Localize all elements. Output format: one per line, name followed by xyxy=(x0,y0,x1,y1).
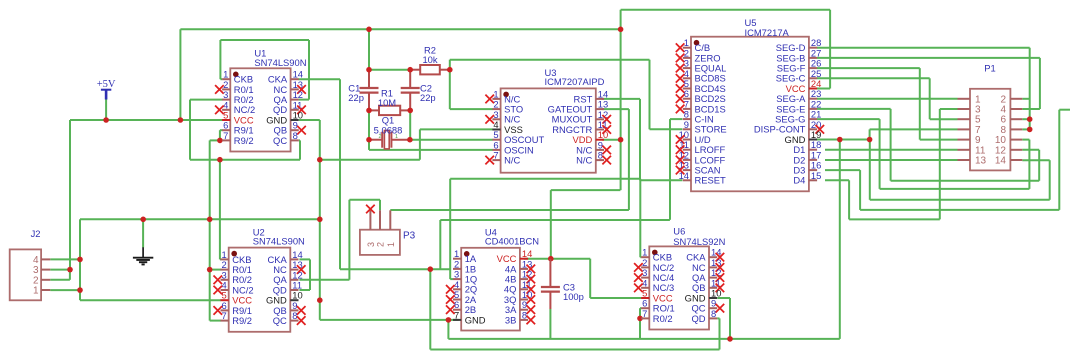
svg-text:8: 8 xyxy=(522,309,527,320)
junction U4 1B tap xyxy=(428,266,434,272)
wire P3 pin2 riser xyxy=(349,200,380,280)
svg-text:2: 2 xyxy=(376,242,386,247)
wire C3 bottom to U4 GND xyxy=(549,309,551,339)
svg-text:P3: P3 xyxy=(403,231,416,242)
svg-text:22p: 22p xyxy=(420,92,436,103)
wire R2 left node to C1 node xyxy=(369,69,410,71)
wire GND spine to U3 VSS xyxy=(320,129,493,159)
svg-text:22p: 22p xyxy=(348,92,364,103)
wire U6 GND riser xyxy=(718,298,731,339)
svg-text:SN74LS92N: SN74LS92N xyxy=(673,236,725,247)
junction R2 right terminal xyxy=(447,67,453,73)
svg-text:8: 8 xyxy=(293,130,298,141)
wire U1 pin3 R0/2 to QC line xyxy=(190,100,223,160)
wire SEG-D to P1 pin2 xyxy=(817,48,1030,130)
junction U6 reset pins xyxy=(637,316,643,322)
svg-text:R9/2: R9/2 xyxy=(234,135,254,146)
wire C2 bottom node to crystal xyxy=(409,110,411,140)
svg-text:ICM7207AIPD: ICM7207AIPD xyxy=(545,76,605,87)
svg-text:7: 7 xyxy=(454,309,459,320)
junction GND bus at spine xyxy=(317,217,323,223)
wire +5V horizontal to U4 VCC xyxy=(524,190,551,259)
junction R1 left node xyxy=(366,108,372,114)
wire U1 QA loop to CKB xyxy=(220,40,309,100)
svg-text:14: 14 xyxy=(995,156,1007,167)
crystal Q1 5.0688 xyxy=(369,115,410,149)
wire U1 GND down spine xyxy=(299,120,320,320)
wire U6 RO/1 bend xyxy=(640,308,641,318)
IC U6 SN74LS92N xyxy=(649,246,709,329)
junction GND bus at R9 riser xyxy=(207,217,213,223)
wire U1 CKA to U4 1B xyxy=(299,79,450,269)
wire +5V west branch xyxy=(551,189,621,191)
junction R2 left terminal xyxy=(407,67,413,73)
svg-text:1: 1 xyxy=(395,134,398,140)
wire U2 R0/1 tap xyxy=(210,269,221,271)
junction C1/R2 node xyxy=(366,67,372,73)
junction +5V symbol on bus xyxy=(103,117,109,123)
svg-text:P1: P1 xyxy=(984,63,995,74)
svg-text:2: 2 xyxy=(379,134,382,140)
wire J2 pin1 xyxy=(50,289,80,291)
svg-text:D4: D4 xyxy=(793,175,805,186)
junction +5V W1 at C1 riser xyxy=(366,27,372,33)
ground symbol xyxy=(133,247,153,264)
svg-text:QC: QC xyxy=(273,315,287,326)
wire +5V from dot to U6 VCC xyxy=(551,259,642,298)
svg-text:8: 8 xyxy=(292,310,297,321)
IC U4 CD4001BCN xyxy=(461,248,520,331)
wire SEG-A to P1 pin1 xyxy=(817,98,958,100)
svg-text:N/C: N/C xyxy=(504,155,520,166)
junction U4 GND / C3 return xyxy=(446,317,452,323)
wire U4 1B riser and bottom bus to U6 QD xyxy=(430,269,719,349)
wire U6 CKB riser from 1A rail xyxy=(639,179,642,258)
wire +5V top rail to U5 VCC xyxy=(621,10,831,89)
svg-text:QC: QC xyxy=(273,135,287,146)
wire SEG-E wrap to P1 pin12 xyxy=(817,109,1039,181)
wire U5 GND down the right side to bottom bus xyxy=(839,140,841,339)
svg-text:14: 14 xyxy=(679,170,689,181)
junction GND bus at ground symbol xyxy=(140,217,146,223)
capacitor C3 100p xyxy=(541,259,584,309)
svg-text:3: 3 xyxy=(366,242,376,247)
IC U5 ICM7217A xyxy=(691,37,809,192)
wire U6 R0/2 to bottom bus xyxy=(639,318,641,339)
wire SEG-C to P1 pin5 xyxy=(817,78,958,119)
svg-text:7: 7 xyxy=(221,310,226,321)
wire J2 pin3 to +5V xyxy=(50,269,70,271)
wire GND bus horizontal xyxy=(80,218,320,220)
wire crystal right node to U3 OSCOUT xyxy=(410,139,493,141)
wire U4 1A/1Q vertical xyxy=(450,179,453,279)
wire +5V left vertical to bus xyxy=(179,29,181,120)
svg-text:100p: 100p xyxy=(563,291,584,302)
wire U1 R9/2 to GND riser xyxy=(210,140,223,320)
svg-text:+5V: +5V xyxy=(97,79,116,90)
wire J2 pin4 xyxy=(50,258,80,260)
svg-text:CD4001BCN: CD4001BCN xyxy=(485,235,539,246)
junction QC line at U2 CKB riser xyxy=(217,157,223,163)
wire U1 QC drop xyxy=(299,140,300,159)
wire U2 CKB from QC line xyxy=(220,160,221,260)
wire STORE line xyxy=(440,219,670,221)
wire +5V bus down to J2 xyxy=(69,120,71,270)
svg-text:J2: J2 xyxy=(31,228,41,239)
junction U2 GND on spine xyxy=(317,297,323,303)
junction R1 right node xyxy=(407,108,413,114)
wire J2 pin2 riser to +5V xyxy=(50,270,70,280)
junction U5 GND tap A xyxy=(837,137,843,143)
wire U3 VDD stub connection xyxy=(602,139,620,141)
svg-text:N/C: N/C xyxy=(576,155,592,166)
junction J2 pin4 xyxy=(77,257,83,263)
wire R2 right to U3 STO xyxy=(450,70,493,109)
svg-text:10M: 10M xyxy=(378,97,396,108)
junction J2 pin3 node xyxy=(67,267,73,273)
wire +5V symbol lead xyxy=(105,99,107,120)
junction crystal right xyxy=(407,137,413,143)
svg-text:7: 7 xyxy=(642,308,647,319)
wire D2 to P1 pin13 xyxy=(825,159,958,161)
wire GND spine to U4 GND xyxy=(320,319,459,321)
svg-text:10k: 10k xyxy=(422,54,437,65)
svg-text:1: 1 xyxy=(386,242,396,247)
junction crystal left xyxy=(366,137,372,143)
svg-text:3B: 3B xyxy=(505,314,516,325)
wire D3 wrap to right edge xyxy=(825,110,1070,210)
wire ground symbol stem xyxy=(142,219,144,247)
wire +5V tap down to C1/R2 node xyxy=(368,29,370,69)
wire D1 to P1 pin11 xyxy=(825,149,958,151)
resistor R2 10k xyxy=(410,45,450,75)
svg-text:15: 15 xyxy=(811,170,821,181)
svg-text:7: 7 xyxy=(223,130,228,141)
svg-text:QD: QD xyxy=(691,313,705,324)
svg-text:8: 8 xyxy=(711,308,716,319)
wire U2 QA to riser xyxy=(299,279,349,281)
junction U5 GND tap B xyxy=(867,137,873,143)
wire P3 pin1 to GATEOUT xyxy=(390,209,629,211)
wire U2 CKA to QD xyxy=(299,259,310,290)
junction U6 GND on bottom bus xyxy=(727,336,733,342)
wire SEG-F to P1 pin9 xyxy=(817,68,958,140)
wire +5V W1 horizontal rail xyxy=(180,28,620,30)
wire U1 QC feedback line xyxy=(190,159,300,161)
junction +5V W1 at x=620 xyxy=(618,27,624,33)
wire +5V vertical at x=620 down xyxy=(620,10,622,190)
connector P3 xyxy=(360,205,416,255)
svg-text:13: 13 xyxy=(975,156,987,167)
junction J2 pin1 xyxy=(77,287,83,293)
junction +5V vertical on bus xyxy=(178,117,184,123)
svg-text:RESET: RESET xyxy=(695,175,727,186)
wire U5 GND line xyxy=(817,139,870,141)
wire P1 pin6 stub join xyxy=(1022,118,1029,120)
connector J2 xyxy=(10,228,51,300)
wire C1 bottom node to crystal/OSCIN xyxy=(368,110,370,150)
wire U4 GND riser from bottom bus xyxy=(447,320,449,339)
wire U1 R9/1 bend xyxy=(220,130,223,140)
wire U3 RST to U5 RESET xyxy=(602,99,682,180)
svg-text:7: 7 xyxy=(493,150,498,161)
wire GND wrap to P1 pin14 xyxy=(870,140,1050,200)
resistor R1 10M xyxy=(369,88,410,116)
wire 1A rail horizontal xyxy=(450,178,640,180)
wire U5 C-IN riser xyxy=(670,119,682,220)
IC U1 SN74LS90N xyxy=(230,68,290,151)
junction P1 pin6 on SEG-D column xyxy=(1027,116,1033,122)
wire U5 STORE riser to R2/STO net xyxy=(450,60,683,130)
wire D4 wrap to P1 pin3 xyxy=(825,109,958,219)
wire U3 GATEOUT down to P3 line xyxy=(602,109,629,210)
junction U1 R9 pins xyxy=(217,138,223,144)
wire SEG-G wrap to P1 pin10 xyxy=(817,119,1029,189)
wire P1 pin7 to GND xyxy=(870,129,958,139)
wire bottom GND bus xyxy=(448,338,839,340)
capacitor C1 22p xyxy=(348,70,378,110)
wire SEG-B to P1 pin4 xyxy=(817,58,1040,109)
connector P1 xyxy=(958,63,1023,171)
junction VSS line at GND spine xyxy=(317,157,323,163)
power +5V symbol xyxy=(97,79,116,99)
svg-text:R0/2: R0/2 xyxy=(653,313,673,324)
junction P1 pin8 on SEG-D column xyxy=(1027,127,1033,133)
wire GND bus down to J2 pins 4,1 and U2 VCC xyxy=(80,219,221,300)
junction U3 VDD tap xyxy=(618,137,624,143)
junction U4 VCC / C3 xyxy=(548,256,554,262)
svg-text:1: 1 xyxy=(33,286,39,297)
wire P1 pin2 stub join xyxy=(1022,98,1029,100)
svg-text:R9/2: R9/2 xyxy=(232,315,252,326)
capacitor C2 22p xyxy=(401,70,436,110)
svg-text:GND: GND xyxy=(465,314,486,325)
wire STORE line west drop xyxy=(439,220,441,269)
wire P1 pin8 stub join xyxy=(1022,128,1029,130)
IC U3 ICM7207AIPD xyxy=(501,88,596,172)
wire +5V bus to U1 VCC xyxy=(70,119,223,121)
svg-text:ICM7217A: ICM7217A xyxy=(745,27,790,38)
junction U2 R0/1 xyxy=(207,267,213,273)
svg-text:8: 8 xyxy=(598,150,603,161)
wire crystal left to U3 OSCIN xyxy=(369,149,493,151)
IC U2 SN74LS90N xyxy=(229,248,291,332)
svg-text:SN74LS90N: SN74LS90N xyxy=(254,57,306,68)
svg-text:SN74LS90N: SN74LS90N xyxy=(253,236,305,247)
